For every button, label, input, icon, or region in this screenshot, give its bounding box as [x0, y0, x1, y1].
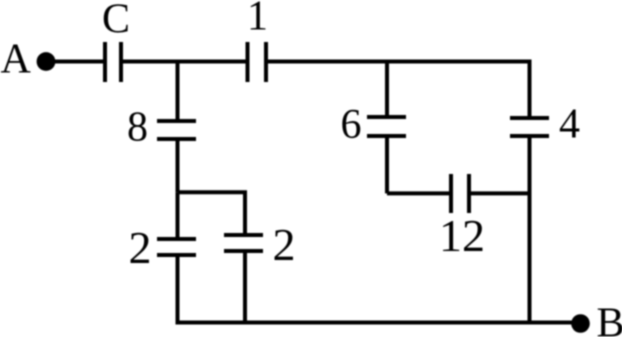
svg-text:1: 1 — [247, 0, 268, 40]
svg-text:2: 2 — [129, 222, 152, 273]
svg-text:A: A — [1, 37, 32, 83]
svg-text:B: B — [597, 301, 622, 337]
svg-text:6: 6 — [341, 102, 362, 148]
svg-text:8: 8 — [127, 105, 148, 151]
svg-text:2: 2 — [273, 219, 296, 270]
svg-text:C: C — [102, 0, 130, 43]
svg-text:4: 4 — [559, 102, 580, 148]
svg-text:12: 12 — [439, 210, 485, 261]
